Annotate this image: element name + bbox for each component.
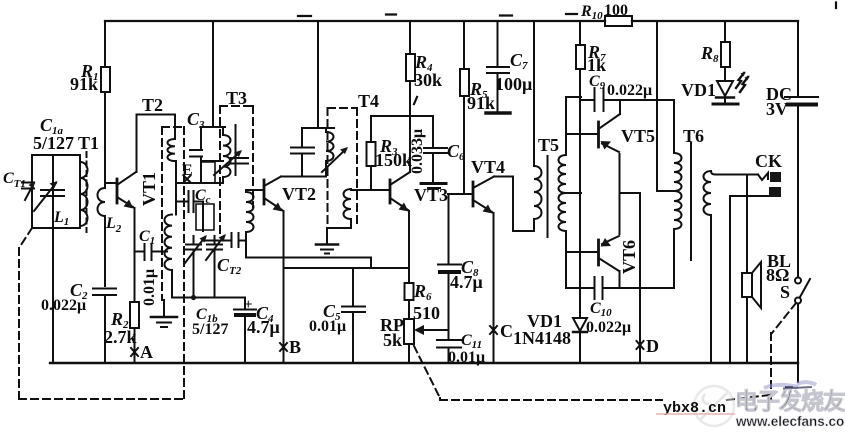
resistor R1 xyxy=(101,67,110,92)
svg-text:5k: 5k xyxy=(383,330,402,350)
ground T4 xyxy=(326,228,328,243)
svg-text:CK: CK xyxy=(755,151,782,171)
inductor L2 xyxy=(98,188,106,216)
transistor VT2 xyxy=(263,180,266,204)
svg-text:100: 100 xyxy=(604,2,628,19)
ground T2 shield xyxy=(163,300,165,316)
wire R1 branch xyxy=(104,21,106,363)
wire T6 center tap xyxy=(657,21,674,191)
node A mark xyxy=(131,348,138,356)
transistor VT1 xyxy=(116,179,119,203)
battery DC xyxy=(797,21,799,96)
speaker feed xyxy=(746,175,748,364)
noise marks xyxy=(298,3,836,105)
capacitor C8 xyxy=(438,194,461,338)
svg-text:电子发烧友: 电子发烧友 xyxy=(735,388,845,414)
transformer T6 primary xyxy=(674,100,682,288)
transistor VT4 xyxy=(472,182,475,206)
svg-text:1N4148: 1N4148 xyxy=(513,328,571,348)
capacitor C1a plates xyxy=(41,190,64,196)
resistor R6 xyxy=(408,268,410,319)
T3 shield dashed box xyxy=(220,106,253,235)
wire E node xyxy=(176,182,215,184)
svg-text:5/127: 5/127 xyxy=(33,133,74,153)
wire CT2 to VT3 xyxy=(246,258,371,269)
wire emitter bus xyxy=(284,267,410,269)
svg-text:3V: 3V xyxy=(766,99,788,119)
T1 core dashed xyxy=(86,152,88,232)
transformer T2 oscillator winding xyxy=(165,215,246,298)
svg-text:VT1: VT1 xyxy=(139,172,159,206)
shield can detail boxes xyxy=(196,162,215,230)
ground C7 xyxy=(486,111,510,114)
capacitor C4 xyxy=(234,298,256,364)
svg-text:2.7k: 2.7k xyxy=(104,327,137,347)
svg-text:100μ: 100μ xyxy=(495,74,532,94)
transformer T4 winding xyxy=(326,128,334,177)
trimmer arrows xyxy=(34,183,56,211)
capacitor C6 xyxy=(424,116,447,182)
svg-text:0.01μ: 0.01μ xyxy=(309,318,346,335)
svg-text:4.7μ: 4.7μ xyxy=(247,317,280,337)
node D mark xyxy=(637,341,644,349)
resistor R7 xyxy=(579,21,581,318)
svg-text:+: + xyxy=(244,297,253,313)
LED VD1 xyxy=(717,81,733,96)
wire emitter node D xyxy=(620,193,641,363)
wire bottom ground rail xyxy=(50,362,798,364)
transistor VT3 xyxy=(389,180,392,203)
svg-text:510: 510 xyxy=(413,303,440,323)
capacitor C10 xyxy=(566,277,672,299)
wire VT2 collector xyxy=(281,176,326,178)
svg-text:VT3: VT3 xyxy=(414,185,448,205)
transformer T5 secondary xyxy=(559,97,567,252)
svg-text:www.elecfans.com: www.elecfans.com xyxy=(735,414,845,429)
svg-text:T1: T1 xyxy=(78,133,99,153)
svg-text:A: A xyxy=(140,342,153,362)
wire VT4 collector xyxy=(494,177,534,232)
potentiometer RP xyxy=(404,319,414,344)
svg-text:0.01μ: 0.01μ xyxy=(141,269,158,306)
capacitor C5 xyxy=(342,268,365,363)
capacitor Cc xyxy=(176,183,203,231)
svg-text:91k: 91k xyxy=(467,93,495,113)
capacitor T4 tank xyxy=(291,128,314,177)
transformer T4 secondary xyxy=(327,189,389,228)
T3 trimmer xyxy=(214,152,248,175)
svg-text:0.022μ: 0.022μ xyxy=(586,319,631,336)
inductor L1 xyxy=(80,162,88,226)
svg-text:0.033μ: 0.033μ xyxy=(409,129,426,174)
T5 core xyxy=(547,156,549,237)
capacitor C3 xyxy=(190,127,225,183)
transformer T3 winding xyxy=(137,115,236,184)
svg-text:VT5: VT5 xyxy=(621,126,655,146)
svg-text:4.7μ: 4.7μ xyxy=(450,272,483,292)
dashed link RP to S xyxy=(414,303,796,400)
resistor R5 xyxy=(463,21,465,194)
svg-text:VT2: VT2 xyxy=(282,184,316,204)
svg-text:0.022μ: 0.022μ xyxy=(41,297,86,314)
trimmer CT1 xyxy=(22,183,34,189)
wire T2 top feed xyxy=(212,21,214,127)
svg-text:0.01μ: 0.01μ xyxy=(448,349,485,366)
capacitor C1 xyxy=(135,244,168,260)
dashed gang link left xyxy=(19,228,184,399)
ground C6 xyxy=(421,182,446,185)
resistor R8 xyxy=(724,21,726,80)
svg-text:30k: 30k xyxy=(414,70,442,90)
resistor R2 xyxy=(130,302,139,328)
svg-text:E: E xyxy=(182,162,193,179)
svg-text:S: S xyxy=(780,282,790,302)
resistor R10 xyxy=(605,16,632,26)
capacitor C11 xyxy=(437,340,461,363)
svg-text:VD1: VD1 xyxy=(681,80,716,100)
LED arrows xyxy=(736,73,744,88)
svg-text:T2: T2 xyxy=(142,95,163,115)
wire T4 top feed xyxy=(302,21,334,128)
svg-text:C: C xyxy=(500,321,513,341)
node B mark xyxy=(280,343,287,351)
svg-text:B: B xyxy=(289,337,301,357)
svg-text:150k: 150k xyxy=(375,150,412,170)
svg-text:T6: T6 xyxy=(683,126,704,146)
antenna tuning gang box T1 xyxy=(32,155,80,228)
resistor R3 xyxy=(367,142,376,166)
node C mark xyxy=(490,326,497,334)
switch S xyxy=(795,278,801,284)
node E mark xyxy=(184,176,191,183)
svg-text:0.022μ: 0.022μ xyxy=(607,82,652,99)
transistor VT6 xyxy=(597,240,600,265)
wire top supply rail xyxy=(105,20,798,22)
svg-text:VT4: VT4 xyxy=(471,157,505,177)
capacitor C2 xyxy=(93,289,116,296)
speaker BL xyxy=(742,273,752,297)
svg-text:VT6: VT6 xyxy=(619,240,639,274)
trimmer CT2 xyxy=(203,233,246,258)
watermark logo circle xyxy=(694,386,734,426)
svg-text:T4: T4 xyxy=(358,91,379,111)
svg-text:1k: 1k xyxy=(587,55,606,75)
wire R3 node xyxy=(371,115,433,117)
svg-text:D: D xyxy=(646,336,659,356)
diode VD1 bias xyxy=(573,318,587,331)
T2 shield dashed box xyxy=(162,127,184,399)
transformer T2 primary winding xyxy=(168,115,177,184)
capacitor C7 xyxy=(487,21,509,111)
transformer T6 secondary xyxy=(704,171,712,363)
svg-text:5/127: 5/127 xyxy=(192,321,228,338)
transformer T3 secondary xyxy=(246,190,262,241)
T6 core xyxy=(690,143,692,260)
svg-text:91k: 91k xyxy=(70,74,98,94)
T4 shield dashed box xyxy=(328,108,358,228)
transformer T5 primary xyxy=(534,21,542,231)
transistor VT5 xyxy=(597,122,600,147)
resistor R4 xyxy=(409,21,411,116)
watermark elecfans blue smudge xyxy=(764,382,816,388)
capacitor C9 xyxy=(580,88,674,111)
junction dot xyxy=(191,295,196,300)
svg-text:T5: T5 xyxy=(538,135,559,155)
svg-text:T3: T3 xyxy=(226,88,247,108)
T4 trimmer arrow xyxy=(322,149,346,172)
capacitor C1b gang xyxy=(186,236,222,298)
jack CK xyxy=(758,173,768,180)
